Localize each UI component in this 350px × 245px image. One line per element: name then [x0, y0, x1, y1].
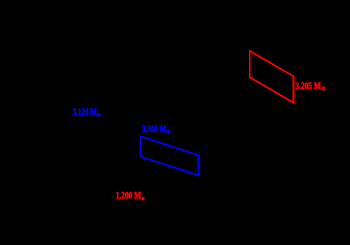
svg-text:3.305 M: 3.305 M — [142, 124, 167, 134]
svg-text:3.205 M: 3.205 M — [295, 81, 321, 91]
svg-text:3.120 M: 3.120 M — [73, 107, 98, 117]
label 1.320 Msun (blue) — [73, 107, 101, 117]
svg-text:1.200 M: 1.200 M — [116, 190, 142, 200]
label 1.200 Msun (red) — [116, 190, 145, 200]
red error box (parallelogram) — [250, 51, 294, 103]
label 1.205 Msun (red) — [295, 81, 325, 91]
label 1.305 Msun (blue) — [142, 124, 170, 134]
blue error box (parallelogram) — [140, 136, 198, 175]
